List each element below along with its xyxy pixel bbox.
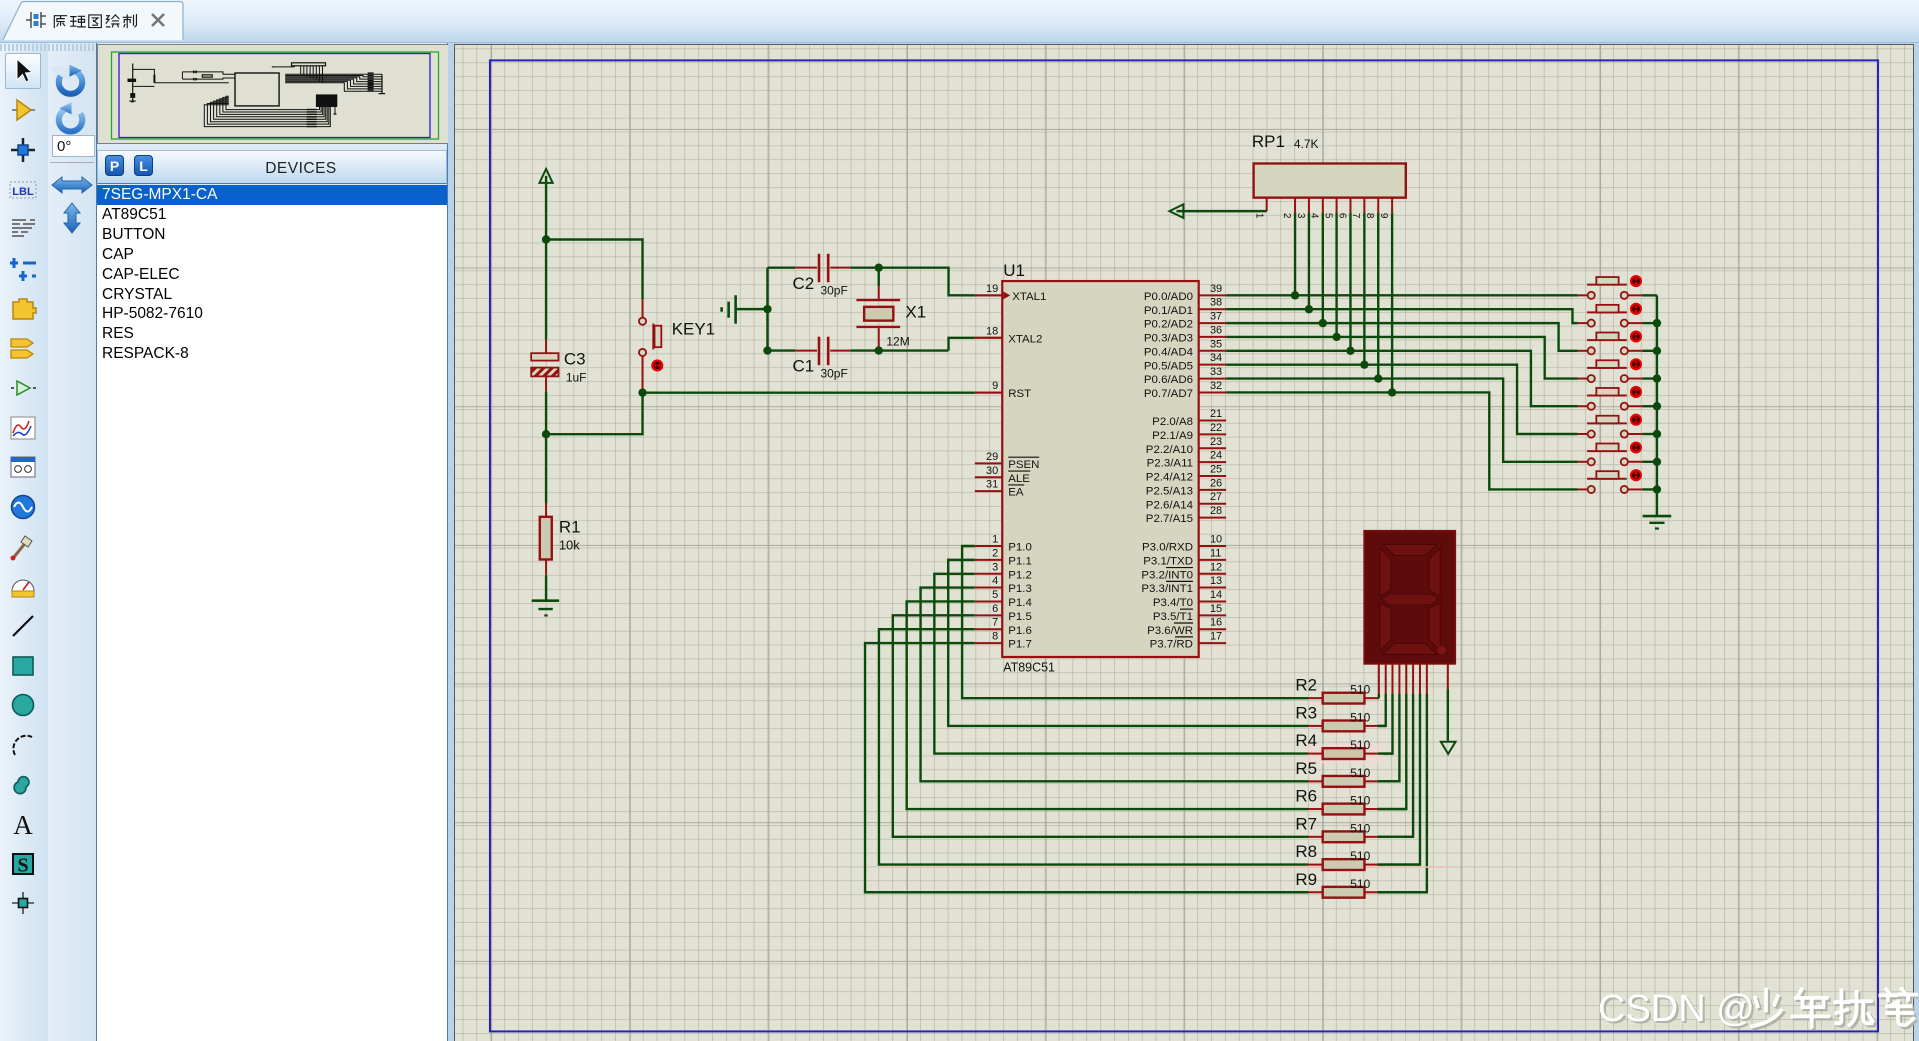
svg-text:P1.7: P1.7 — [1008, 639, 1032, 651]
svg-text:33: 33 — [1210, 366, 1222, 378]
svg-text:P0.6/AD6: P0.6/AD6 — [1144, 374, 1193, 386]
svg-text:5: 5 — [992, 589, 998, 601]
svg-text:9: 9 — [1378, 213, 1389, 219]
svg-text:P1.6: P1.6 — [1008, 625, 1032, 637]
svg-text:P0.5/AD5: P0.5/AD5 — [1144, 360, 1193, 372]
svg-text:10: 10 — [1210, 533, 1222, 545]
svg-text:P2.7/A15: P2.7/A15 — [1146, 513, 1193, 525]
svg-text:R3: R3 — [1295, 703, 1317, 722]
svg-text:AT89C51: AT89C51 — [1003, 660, 1055, 674]
svg-text:P2.0/A8: P2.0/A8 — [1152, 416, 1193, 428]
svg-text:36: 36 — [1210, 324, 1222, 336]
svg-text:29: 29 — [986, 451, 998, 463]
svg-text:2: 2 — [992, 547, 998, 559]
svg-text:P2.6/A14: P2.6/A14 — [1146, 499, 1194, 511]
svg-text:12M: 12M — [886, 335, 909, 349]
svg-text:5: 5 — [1322, 213, 1333, 219]
svg-text:510: 510 — [1350, 766, 1370, 780]
svg-text:510: 510 — [1350, 710, 1370, 724]
svg-text:3: 3 — [992, 561, 998, 573]
svg-text:X1: X1 — [905, 303, 926, 322]
svg-text:R6: R6 — [1295, 787, 1317, 806]
svg-text:P3.7/RD: P3.7/RD — [1150, 639, 1193, 651]
svg-text:P2.3/A11: P2.3/A11 — [1147, 458, 1193, 470]
svg-text:U1: U1 — [1003, 261, 1025, 280]
svg-text:11: 11 — [1210, 547, 1221, 559]
svg-text:P0.7/AD7: P0.7/AD7 — [1144, 388, 1193, 400]
svg-text:15: 15 — [1210, 603, 1222, 615]
svg-text:22: 22 — [1210, 422, 1222, 434]
svg-text:32: 32 — [1210, 380, 1222, 392]
svg-text:XTAL2: XTAL2 — [1008, 333, 1042, 345]
svg-text:EA: EA — [1008, 487, 1024, 499]
svg-text:7: 7 — [992, 617, 998, 629]
svg-text:4: 4 — [1309, 213, 1320, 219]
svg-text:C1: C1 — [793, 357, 815, 376]
svg-text:C3: C3 — [564, 350, 586, 369]
svg-text:P0.1/AD1: P0.1/AD1 — [1144, 305, 1193, 317]
svg-text:P2.2/A10: P2.2/A10 — [1146, 444, 1193, 456]
svg-text:3: 3 — [1295, 213, 1306, 219]
svg-text:R2: R2 — [1295, 676, 1317, 695]
svg-text:510: 510 — [1350, 683, 1370, 697]
svg-text:510: 510 — [1350, 821, 1370, 835]
svg-text:17: 17 — [1210, 631, 1222, 643]
svg-text:6: 6 — [992, 603, 998, 615]
svg-text:C2: C2 — [793, 274, 815, 293]
svg-text:RST: RST — [1008, 388, 1031, 400]
svg-text:31: 31 — [986, 479, 998, 491]
svg-text:RP1: RP1 — [1252, 132, 1285, 151]
svg-text:P3.5/T1: P3.5/T1 — [1153, 611, 1193, 623]
svg-text:30: 30 — [986, 465, 998, 477]
svg-text:R1: R1 — [559, 518, 581, 537]
svg-text:ALE: ALE — [1008, 473, 1030, 485]
svg-text:9: 9 — [992, 380, 998, 392]
svg-text:P1.0: P1.0 — [1008, 542, 1032, 554]
svg-text:P2.4/A12: P2.4/A12 — [1146, 472, 1193, 484]
svg-text:26: 26 — [1210, 477, 1222, 489]
svg-text:4.7K: 4.7K — [1294, 137, 1319, 151]
svg-text:34: 34 — [1210, 352, 1222, 364]
svg-text:P3.0/RXD: P3.0/RXD — [1142, 542, 1193, 554]
svg-text:P3.1/TXD: P3.1/TXD — [1143, 555, 1193, 567]
svg-text:P3.6/WR: P3.6/WR — [1147, 625, 1193, 637]
svg-text:1uF: 1uF — [566, 371, 587, 385]
svg-text:KEY1: KEY1 — [672, 320, 715, 339]
svg-text:2: 2 — [1281, 213, 1292, 219]
svg-text:510: 510 — [1350, 738, 1370, 752]
svg-text:21: 21 — [1210, 408, 1222, 420]
svg-text:510: 510 — [1350, 877, 1370, 891]
svg-text:27: 27 — [1210, 491, 1222, 503]
svg-text:8: 8 — [992, 631, 998, 643]
svg-text:R7: R7 — [1295, 814, 1317, 833]
svg-text:510: 510 — [1350, 794, 1370, 808]
svg-text:24: 24 — [1210, 450, 1222, 462]
svg-text:P2.5/A13: P2.5/A13 — [1146, 485, 1193, 497]
svg-text:28: 28 — [1210, 505, 1222, 517]
svg-text:P3.3/INT1: P3.3/INT1 — [1141, 583, 1193, 595]
svg-text:510: 510 — [1350, 849, 1370, 863]
svg-text:23: 23 — [1210, 436, 1222, 448]
svg-text:13: 13 — [1210, 575, 1222, 587]
svg-text:39: 39 — [1210, 283, 1222, 295]
svg-text:35: 35 — [1210, 338, 1222, 350]
svg-text:1: 1 — [992, 533, 998, 545]
svg-text:LBL: LBL — [12, 186, 34, 198]
svg-text:25: 25 — [1210, 463, 1222, 475]
svg-text:38: 38 — [1210, 297, 1222, 309]
svg-text:16: 16 — [1210, 617, 1222, 629]
svg-text:P2.1/A9: P2.1/A9 — [1152, 430, 1193, 442]
svg-text:P1.5: P1.5 — [1008, 611, 1032, 623]
svg-text:XTAL1: XTAL1 — [1012, 291, 1046, 303]
svg-text:14: 14 — [1210, 589, 1222, 601]
svg-text:6: 6 — [1336, 213, 1347, 219]
svg-text:30pF: 30pF — [820, 284, 847, 298]
svg-text:19: 19 — [986, 283, 998, 295]
svg-text:P1.1: P1.1 — [1008, 555, 1032, 567]
svg-text:P0.3/AD3: P0.3/AD3 — [1144, 333, 1193, 345]
svg-text:18: 18 — [986, 325, 998, 337]
svg-text:R9: R9 — [1295, 870, 1317, 889]
svg-text:P3.4/T0: P3.4/T0 — [1153, 597, 1193, 609]
svg-text:R8: R8 — [1295, 842, 1317, 861]
svg-text:P1.4: P1.4 — [1008, 597, 1032, 609]
svg-text:P1.2: P1.2 — [1008, 569, 1032, 581]
svg-text:P0.2/AD2: P0.2/AD2 — [1144, 319, 1193, 331]
svg-text:37: 37 — [1210, 311, 1222, 323]
svg-text:R4: R4 — [1295, 731, 1317, 750]
svg-text:S: S — [17, 855, 28, 877]
svg-text:1: 1 — [1253, 213, 1264, 219]
svg-text:30pF: 30pF — [820, 367, 847, 381]
svg-text:4: 4 — [992, 575, 998, 587]
svg-text:P3.2/INT0: P3.2/INT0 — [1141, 569, 1193, 581]
svg-text:CSDN @: CSDN @ — [1598, 988, 1755, 1030]
svg-text:P0.4/AD4: P0.4/AD4 — [1144, 346, 1194, 358]
svg-text:12: 12 — [1210, 561, 1222, 573]
svg-text:R5: R5 — [1295, 759, 1317, 778]
svg-text:A: A — [13, 810, 33, 839]
svg-text:8: 8 — [1364, 213, 1375, 219]
svg-text:P1.3: P1.3 — [1008, 583, 1032, 595]
svg-text:P0.0/AD0: P0.0/AD0 — [1144, 291, 1193, 303]
svg-text:7: 7 — [1350, 213, 1361, 219]
svg-text:10k: 10k — [559, 537, 580, 552]
svg-text:PSEN: PSEN — [1008, 459, 1039, 471]
